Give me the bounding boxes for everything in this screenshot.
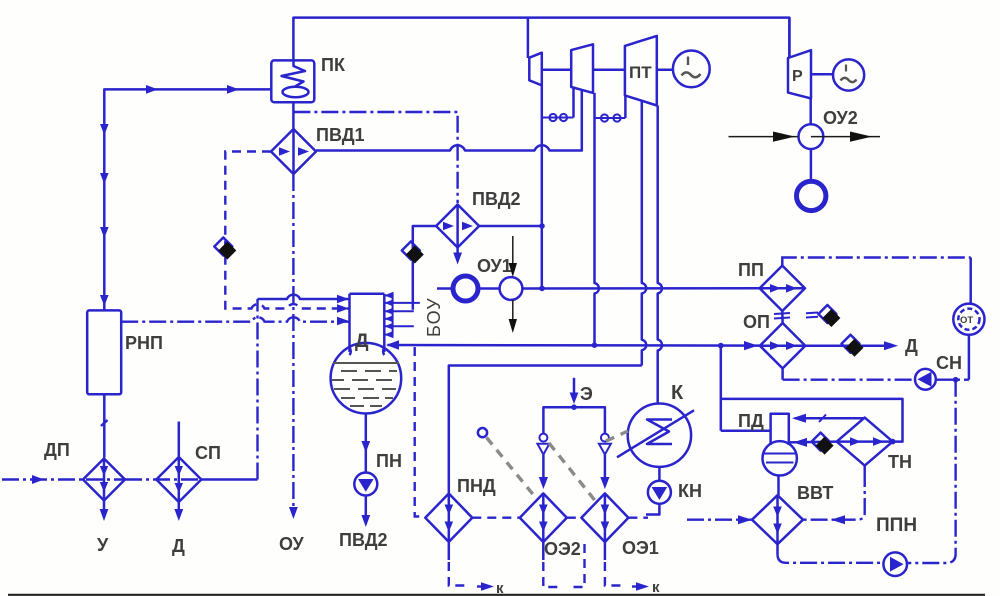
- svg-text:Э: Э: [580, 384, 593, 404]
- cleanup unit BOU thick circle: [453, 276, 478, 301]
- heater PVD1 diamond: [271, 129, 316, 174]
- heater OP diamond: [760, 323, 805, 368]
- label PN: [376, 451, 402, 471]
- wire PP top dashdot heating loop: [782, 258, 970, 266]
- wire extraction HP down: [541, 85, 544, 288]
- gray air line 3 to condenser: [606, 431, 628, 441]
- wire PVD1 drain dashed: [225, 152, 349, 309]
- svg-text:ОЭ1: ОЭ1: [622, 538, 659, 558]
- heater OE1 diamond: [581, 493, 628, 542]
- wire turbine inlet drop: [527, 18, 530, 58]
- arrow deaerator inlet 2: [337, 304, 349, 313]
- node junction PPN riser: [953, 377, 959, 383]
- label PT: [629, 63, 652, 82]
- svg-text:КН: КН: [678, 481, 702, 501]
- label PD: [738, 411, 764, 431]
- heater OE2 diamond: [520, 493, 567, 542]
- label PND: [457, 476, 496, 496]
- svg-text:Р: Р: [792, 68, 803, 85]
- wire main condensate OU1 to PP: [522, 287, 759, 290]
- wire BOU stub left: [437, 287, 453, 290]
- node junction PVD2 steam: [539, 223, 545, 229]
- wire PVD1 extraction line to turbine: [316, 91, 582, 151]
- restrictor marks and black diamond upper: [806, 305, 840, 327]
- ejector nozzle right: [599, 434, 611, 489]
- arrow black out of OU1 bottom: [509, 300, 517, 333]
- wire blowdown from PK left: [104, 89, 271, 310]
- svg-text:ПВД2: ПВД2: [339, 530, 388, 550]
- svg-text:Д: Д: [172, 536, 185, 556]
- seal line 1 with loops: [542, 114, 574, 121]
- wire extraction LP to PND: [642, 101, 647, 366]
- wire OP steam to deaerator label D: [805, 336, 918, 356]
- wire OT down to SN line: [968, 335, 971, 380]
- wire BOU to OU1: [478, 287, 500, 290]
- wire PVD2 drain left: [413, 226, 436, 310]
- arrow deaerator inlet 1: [337, 295, 349, 304]
- shaft R to generator: [811, 73, 833, 76]
- wire riser to deaerator top line: [256, 299, 258, 480]
- label BOU rotated gray: [424, 297, 444, 337]
- svg-text:ПВД1: ПВД1: [316, 125, 365, 145]
- label K: [671, 382, 684, 404]
- svg-text:ОУ1: ОУ1: [477, 256, 512, 276]
- generator G2: [833, 59, 864, 90]
- deaerator column: [350, 294, 385, 352]
- wire KN outlet to OE1: [646, 504, 659, 515]
- svg-text:ОП: ОП: [743, 312, 770, 332]
- svg-text:ОУ: ОУ: [279, 534, 305, 554]
- label D deaerator: [355, 331, 369, 352]
- arrow into RNP: [100, 295, 109, 306]
- svg-text:ПП: ПП: [738, 260, 764, 280]
- wire OP bottom to SN dashdot: [783, 368, 969, 379]
- label TN: [888, 452, 912, 472]
- label OE2: [544, 539, 581, 559]
- wire PND bottom hook to K: [449, 542, 504, 596]
- expander RNP: [87, 310, 121, 394]
- wire dashed PND-OE2: [472, 517, 520, 519]
- heater PP diamond: [760, 266, 805, 311]
- svg-text:ПТ: ПТ: [629, 63, 652, 82]
- wire to PD vessel: [721, 429, 771, 432]
- wire deaerator feed top: [258, 295, 350, 299]
- wire K to KN: [658, 467, 661, 481]
- arrow black into OU1 top: [509, 236, 517, 277]
- wire PVD2 vent arrow down: [453, 248, 462, 265]
- svg-text:ПНД: ПНД: [457, 476, 496, 496]
- turbine shaft MP-LP: [593, 69, 625, 72]
- gray air line 1 with circle: [478, 428, 536, 498]
- svg-text:РНП: РНП: [125, 333, 163, 353]
- seal line 2 with loops: [595, 114, 625, 121]
- label OU2: [823, 108, 858, 128]
- seal cooler OU2 circle: [799, 124, 824, 149]
- svg-text:ТН: ТН: [888, 452, 912, 472]
- wire dashed drain to PND from line345: [415, 347, 426, 517]
- node junction PD branch: [718, 343, 724, 349]
- wire RNP to deaerator bottom line: [121, 317, 349, 321]
- wire RNP to DP: [101, 394, 108, 457]
- wire PPN loop right riser dashdot: [907, 380, 956, 563]
- ejector nozzle left: [537, 434, 549, 489]
- condenser K circle: [617, 404, 694, 467]
- wire VVT bottom to PPN dashdot: [778, 544, 884, 563]
- svg-text:ППН: ППН: [876, 515, 917, 536]
- vessel PD: [763, 414, 797, 476]
- label SP: [195, 443, 221, 463]
- valve black diamond on D line: [842, 335, 864, 357]
- arrow deaerator inlet 3: [337, 317, 349, 326]
- svg-text:К: К: [671, 382, 684, 404]
- arrow blowdown v2: [100, 173, 109, 184]
- wire PVD1 drain dashdot down, label OU: [279, 174, 305, 554]
- wire OU2 down to drain funnel: [810, 149, 813, 179]
- label OP: [743, 312, 770, 332]
- svg-text:БОУ: БОУ: [424, 297, 444, 337]
- drain funnel thick ring: [797, 181, 826, 210]
- arrow into deaerator right: [386, 340, 399, 349]
- arrow blowdown v1: [100, 124, 109, 135]
- deaerator tank: [331, 343, 402, 414]
- wire OE1 bottom hook to K: [605, 542, 660, 596]
- heat consumer OT double ring: [953, 304, 984, 335]
- wire seal2 stub to LP bottom: [624, 96, 627, 118]
- svg-text:ОУ2: ОУ2: [823, 108, 858, 128]
- reheat turbine R section: [788, 50, 811, 98]
- svg-text:ОТ: ОТ: [960, 315, 973, 326]
- heat exchanger VVT diamond: [752, 495, 803, 544]
- wire PVD2 steam from turbine: [479, 225, 542, 228]
- arrow blowdown v3: [100, 227, 109, 238]
- ejector E steam stub: [570, 378, 593, 404]
- label PP: [738, 260, 764, 280]
- svg-text:Д: Д: [355, 331, 369, 352]
- turbine HP section: [529, 53, 542, 86]
- svg-text:У: У: [97, 535, 109, 555]
- wire extraction MP down to deaerator line: [592, 93, 599, 348]
- wire deaerator outlet to PN: [361, 414, 370, 473]
- label PK: [321, 55, 346, 75]
- svg-text:Д: Д: [905, 336, 918, 356]
- wire R outlet to OU2: [809, 98, 812, 124]
- svg-text:ОЭ2: ОЭ2: [544, 539, 581, 559]
- pump KN: [648, 481, 671, 504]
- heater DP diamond: [83, 459, 125, 501]
- svg-text:СП: СП: [195, 443, 221, 463]
- ejector header: [543, 404, 605, 433]
- arrow blowdown h2: [227, 85, 239, 94]
- wire LP exhaust to condenser: [658, 106, 662, 404]
- wire PD bottom to VVT top: [777, 476, 780, 496]
- wire main steam header top: [293, 18, 789, 61]
- wire dashdot PK outlet to PVD2 top: [293, 112, 457, 203]
- wire PD to TN left with arrow: [789, 438, 837, 447]
- svg-text:к: к: [652, 579, 660, 596]
- gray air line 2: [549, 443, 597, 503]
- turbine MP section: [571, 44, 593, 93]
- wire SP outlet down, label D: [172, 502, 185, 556]
- svg-text:ПК: ПК: [321, 55, 346, 75]
- wire PK bottom to PVD1: [292, 102, 295, 129]
- label PVD1: [316, 125, 365, 145]
- wire KN dashdot to VVT left: [687, 515, 752, 524]
- wire TN top vertex to PD arrow: [792, 414, 865, 423]
- heater TN diamond: [837, 418, 893, 466]
- label VVT: [797, 483, 833, 503]
- svg-text:ВВТ: ВВТ: [797, 483, 833, 503]
- valve black diamond on PVD1 drain: [214, 238, 236, 260]
- wire PND riser: [449, 366, 642, 494]
- svg-text:к: к: [496, 580, 504, 596]
- label R: [792, 68, 803, 85]
- label OU1: [477, 256, 512, 276]
- label PVD2: [472, 189, 521, 209]
- turbine LP section PT: [625, 36, 657, 106]
- wire DP to SP dashdot: [125, 478, 201, 480]
- wire drain inlet to DP: [2, 475, 125, 484]
- frame bottom black line: [8, 594, 985, 596]
- boiler PK box: [271, 60, 314, 102]
- label RNP: [125, 333, 163, 353]
- deaerator water level: [332, 363, 399, 406]
- wire TN bracket top: [721, 399, 903, 442]
- wire PD branch vertical: [720, 346, 723, 431]
- wire dashed right of OE1: [628, 517, 648, 519]
- wire MP bottom stub to seal1: [572, 88, 575, 118]
- wire right riser to OT: [969, 258, 972, 304]
- svg-text:ПД: ПД: [738, 411, 764, 431]
- arrow black air line right of OU2: [811, 132, 880, 142]
- arrow black air line left of OU2: [729, 132, 799, 142]
- valve black diamond on PVD2 drain: [402, 242, 424, 264]
- valve black diamond PD-TN: [812, 433, 834, 455]
- heater SP diamond: [156, 457, 201, 502]
- wire deaerator main condensate line y345: [388, 344, 761, 347]
- boiler PK coil: [282, 61, 309, 98]
- svg-text:ДП: ДП: [44, 440, 70, 460]
- generator G1: [673, 51, 710, 88]
- heater PND diamond: [425, 494, 472, 542]
- wire DP outlet down, label U: [97, 501, 109, 556]
- label KN: [678, 481, 702, 501]
- svg-text:ПН: ПН: [376, 451, 402, 471]
- reheat turbine R inlet: [788, 18, 791, 58]
- node junction TN right: [890, 439, 896, 445]
- deaerator right comb manifold: [384, 292, 420, 338]
- svg-text:СН: СН: [936, 353, 962, 373]
- arrow blowdown h1: [146, 85, 158, 94]
- wire SP steam stub: [178, 422, 181, 458]
- wire PN outlet to PVD2 label: [339, 496, 388, 551]
- label OE1: [622, 538, 659, 558]
- wire OE2 bottom hook: [543, 542, 584, 587]
- turbine shaft HP-MP: [542, 69, 571, 72]
- wire PP-OP connector with break marks: [774, 311, 790, 323]
- pump PPN: [883, 552, 907, 576]
- heater PVD2 diamond: [436, 205, 479, 248]
- label DP: [44, 440, 70, 460]
- wire SP to riser: [201, 478, 257, 481]
- turbine shaft to generator: [657, 69, 673, 72]
- wire TN bottom dashdot to VVT: [803, 466, 865, 525]
- pump SN: [915, 369, 936, 390]
- node junction ext1: [539, 286, 545, 292]
- label PPN: [876, 515, 917, 536]
- wire dashed OE2-OE1: [567, 517, 582, 519]
- label SN: [936, 353, 962, 373]
- pump PN: [354, 473, 377, 496]
- svg-text:ПВД2: ПВД2: [472, 189, 521, 209]
- seal cooler OU1 circle: [500, 277, 523, 300]
- arrow into OP left vertex: [744, 341, 758, 350]
